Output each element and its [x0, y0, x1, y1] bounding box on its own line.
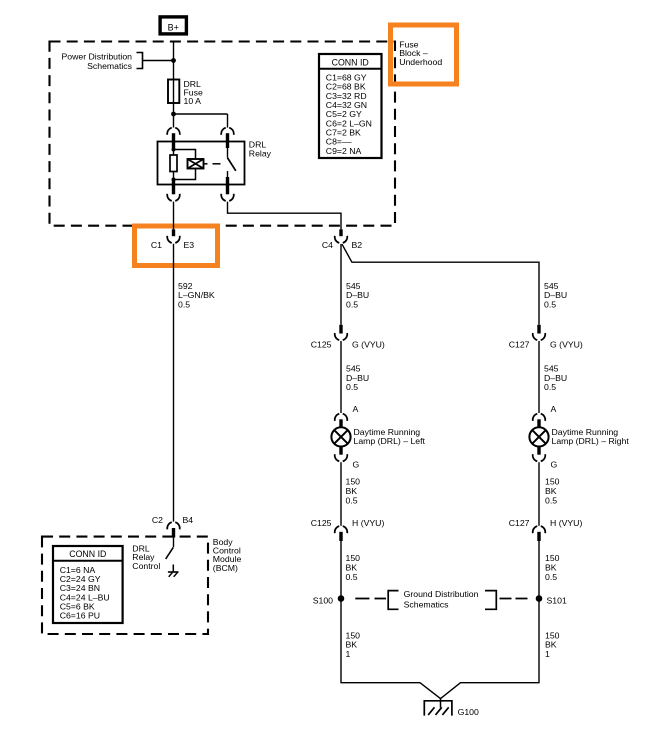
wire 150 BK 1 - S101 to G100 [441, 599, 539, 699]
label wire 150 BK 0.5 (right lower) [545, 553, 560, 582]
junction - relay feed split [171, 112, 176, 117]
dashed link - S100 to callout [355, 598, 386, 600]
wire - fuse to relay split [173, 103, 175, 114]
label Daytime Running Lamp (DRL) - Right [552, 427, 630, 446]
label wire 150 BK 1 (right) [545, 630, 560, 659]
connector C4/B2 socket [335, 236, 348, 243]
label wire 150 BK 0.5 (left upper) [346, 477, 361, 506]
label DRL Relay Control [132, 544, 160, 571]
svg-text:C125: C125 [311, 340, 332, 350]
svg-text:B2: B2 [352, 240, 363, 250]
connector - relay switch output (female) [221, 194, 234, 201]
label C1 [151, 240, 162, 250]
label B4 [183, 515, 194, 525]
svg-text:(BCM): (BCM) [213, 563, 238, 573]
svg-text:C2: C2 [152, 515, 163, 525]
connector C2/B4 socket [167, 522, 180, 529]
svg-text:C1: C1 [151, 240, 162, 250]
connector C127 cavity H pin [537, 532, 540, 541]
svg-text:Power Distribution: Power Distribution [62, 52, 133, 62]
svg-text:Underhood: Underhood [399, 57, 442, 67]
power feed B+ [160, 17, 186, 34]
splice S100 [338, 595, 345, 602]
ground - BCM internal [168, 565, 179, 577]
wire - coil top branch [173, 149, 175, 156]
pin - lamp Left A [339, 419, 342, 427]
label E3 [184, 240, 195, 250]
highlight box - connector C1/E3 [135, 226, 218, 266]
connector - lamp Right terminal G [533, 454, 546, 461]
pin - lamp Right G [537, 446, 540, 454]
link - coil to armature [204, 163, 221, 165]
splice S101 [536, 595, 543, 602]
pin - relay coil terminal [172, 133, 175, 148]
switch - DRL relay control driver [166, 547, 174, 559]
connector - relay coil pin (female) [167, 128, 180, 135]
label DRL Relay [249, 140, 272, 159]
svg-text:G (VYU): G (VYU) [352, 340, 385, 350]
svg-text:S100: S100 [313, 595, 333, 605]
svg-text:0.5: 0.5 [346, 382, 358, 392]
label G100 [458, 707, 479, 717]
label C125 [311, 340, 332, 350]
wire - switch top contact [227, 148, 229, 157]
wire 545 D-BU - to left lamp [340, 244, 342, 325]
svg-text:0.5: 0.5 [545, 572, 557, 582]
label B2 [352, 240, 363, 250]
connector C1/E3 pin [172, 229, 175, 236]
label C4 [322, 240, 333, 250]
wire - C125 to splice [340, 541, 342, 599]
wire - C125 to lamp [340, 341, 342, 413]
svg-text:CONN ID: CONN ID [69, 549, 106, 559]
svg-text:Schematics: Schematics [404, 600, 450, 610]
svg-text:G100: G100 [458, 707, 479, 717]
svg-text:C125: C125 [311, 518, 332, 528]
wire - lamp Left ground lead [340, 462, 342, 526]
connector C125 cavity G socket [335, 333, 348, 340]
bracket right - ground distribution [485, 591, 496, 610]
svg-text:Control: Control [132, 561, 160, 571]
svg-text:C4: C4 [322, 240, 333, 250]
svg-text:Schematics: Schematics [87, 61, 133, 71]
table CONN ID (fuse block underhood) [319, 54, 382, 158]
svg-text:0.5: 0.5 [544, 382, 556, 392]
svg-text:Lamp (DRL) – Right: Lamp (DRL) – Right [552, 436, 630, 446]
svg-text:B+: B+ [168, 22, 179, 32]
fuse block - underhood dashed outline [50, 42, 396, 226]
label H (VYU) at C127 [550, 518, 582, 528]
label wire 150 BK 0.5 (right upper) [545, 477, 560, 506]
wire - split to relay pin 2 [174, 114, 228, 128]
label Power Distribution Schematics [62, 52, 133, 71]
svg-text:1: 1 [545, 649, 550, 659]
label G (VYU) at C125 [352, 340, 385, 350]
connector C127 cavity H socket [533, 526, 546, 533]
svg-text:S101: S101 [547, 595, 567, 605]
lamp E1 Daytime Running Lamp Left [331, 427, 350, 446]
connector C127 cavity G pin [537, 325, 540, 334]
svg-text:H (VYU): H (VYU) [352, 518, 384, 528]
wire - B+ to DRL fuse [173, 42, 175, 80]
svg-text:Ground Distribution: Ground Distribution [404, 589, 479, 599]
label G (VYU) at C127 [550, 340, 583, 350]
svg-text:B4: B4 [183, 515, 194, 525]
svg-text:0.5: 0.5 [346, 300, 358, 310]
wire 150 BK 1 - S100 to G100 [341, 599, 440, 699]
svg-text:1: 1 [346, 649, 351, 659]
connector C4/B2 pin [339, 229, 342, 236]
connector - relay coil low (female) [167, 194, 180, 201]
wire - lamp Right ground lead [538, 462, 540, 526]
connector C1/E3 socket [167, 236, 180, 243]
highlight box - Fuse Block Underhood [391, 25, 457, 84]
label G (Left lamp) [353, 460, 360, 470]
svg-text:0.5: 0.5 [545, 495, 557, 505]
pin - relay switch terminal [226, 133, 229, 148]
node - relay coil bottom junction [172, 178, 176, 182]
label C125 (H row) [311, 518, 332, 528]
wire - Power Distribution tap [143, 60, 174, 62]
label wire 150 BK 0.5 (left lower) [346, 553, 361, 582]
svg-text:C127: C127 [509, 340, 530, 350]
wire - coil bottom branch [173, 172, 175, 180]
svg-text:0.5: 0.5 [346, 572, 358, 582]
svg-text:E3: E3 [184, 240, 195, 250]
wire - BCM driver input [173, 538, 175, 547]
ground G100 symbol [424, 698, 452, 716]
label Body Control Module (BCM) [213, 537, 242, 573]
label DRL Fuse 10 A [184, 79, 203, 106]
label S101 [547, 595, 567, 605]
wire - C127 to splice [538, 541, 540, 599]
svg-text:CONN ID: CONN ID [332, 57, 369, 67]
pin - lamp Left G [339, 446, 342, 454]
wire - split to relay pin 1 [173, 114, 175, 128]
wire 545 D-BU - branch to right lamp [342, 244, 539, 325]
label wire 150 BK 1 (left) [346, 630, 361, 659]
svg-text:A: A [551, 404, 557, 414]
svg-text:H (VYU): H (VYU) [550, 518, 582, 528]
label wire 592 L-GN/BK 0.5 [178, 281, 215, 310]
pin - lamp Right A [537, 419, 540, 427]
bracket to Power Distribution [137, 53, 143, 69]
wire - relay to C4/B2 [228, 202, 342, 230]
connector C2/B4 pin [172, 528, 175, 538]
label wire 545 D-BU 0.5 (right upper) [544, 281, 567, 310]
label H (VYU) at C125 [352, 518, 384, 528]
label wire 545 D-BU 0.5 (left lower) [346, 364, 369, 393]
svg-text:C6=16 PU: C6=16 PU [60, 611, 100, 621]
label C127 (H row) [509, 518, 530, 528]
svg-text:0.5: 0.5 [178, 300, 190, 310]
label C2 [152, 515, 163, 525]
wire 592 L-GN/BK - C1/E3 to BCM [173, 244, 175, 522]
svg-text:A: A [353, 404, 359, 414]
svg-text:10 A: 10 A [184, 96, 202, 106]
connector - lamp Left terminal G [335, 454, 348, 461]
svg-text:Relay: Relay [249, 149, 272, 159]
connector C125 cavity H socket [335, 526, 348, 533]
label G (Right lamp) [551, 460, 558, 470]
connector C125 cavity G pin [339, 325, 342, 334]
bracket left - ground distribution [388, 591, 398, 610]
connector C127 cavity G socket [533, 333, 546, 340]
junction - B+ tap [171, 58, 176, 63]
svg-text:C9=2 NA: C9=2 NA [326, 146, 362, 156]
dashed link - callout to S101 [500, 598, 529, 600]
connector - relay switch pin (female) [221, 128, 234, 135]
connector C125 cavity H pin [339, 532, 342, 541]
connector - lamp Left terminal A [335, 414, 348, 421]
node - relay coil top junction [172, 148, 176, 152]
resistor - relay coil suppression [170, 155, 177, 172]
coil - relay winding (X box) [188, 159, 204, 169]
switch - relay armature blade [227, 158, 236, 171]
wire - relay to C1/E3 [173, 202, 175, 230]
label Daytime Running Lamp (DRL) - Left [354, 427, 426, 446]
label wire 545 D-BU 0.5 (right lower) [544, 364, 567, 393]
svg-text:Lamp (DRL) – Left: Lamp (DRL) – Left [354, 436, 426, 446]
svg-text:G (VYU): G (VYU) [550, 340, 583, 350]
svg-text:C127: C127 [509, 518, 530, 528]
fuse DRL 10A [168, 80, 179, 104]
svg-text:G: G [551, 460, 558, 470]
pin - relay coil low side [172, 180, 175, 195]
wire - switch bottom contact [227, 171, 229, 178]
wire - relay coil loop [174, 150, 196, 180]
label Ground Distribution Schematics [404, 589, 479, 609]
label A (Left lamp) [353, 404, 359, 414]
lamp E2 Daytime Running Lamp Right [529, 427, 548, 446]
connector - lamp Right terminal A [533, 414, 546, 421]
pin - relay switch output [226, 177, 229, 194]
label Fuse Block - Underhood [399, 39, 442, 67]
svg-text:0.5: 0.5 [346, 495, 358, 505]
label wire 545 D-BU 0.5 (left upper) [346, 281, 369, 310]
svg-text:G: G [353, 460, 360, 470]
wire - C127 to lamp [538, 341, 540, 413]
body control module (BCM) dashed outline [42, 537, 208, 634]
label S100 [313, 595, 333, 605]
table CONN ID (BCM) [53, 546, 123, 623]
relay U1 DRL Relay outline [158, 142, 245, 185]
svg-text:0.5: 0.5 [544, 300, 556, 310]
label C127 [509, 340, 530, 350]
label A (Right lamp) [551, 404, 557, 414]
